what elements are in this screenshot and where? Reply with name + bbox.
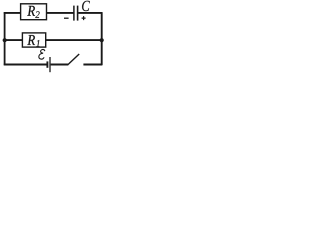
- battery short plate (negative): [46, 61, 48, 67]
- label C: [82, 1, 90, 11]
- plus polarity mark: [82, 16, 86, 20]
- node: left junction: [3, 38, 7, 42]
- resistor R1: [22, 33, 45, 47]
- wire: top branch, R2 to capacitor: [47, 12, 74, 14]
- wire: middle branch, R1 to right rail: [46, 39, 102, 41]
- capacitor C left plate: [73, 6, 75, 21]
- node: right junction: [100, 38, 104, 42]
- resistor R2: [21, 4, 47, 20]
- label EMF script E: [38, 49, 45, 59]
- switch blade: [68, 54, 79, 65]
- wire: middle branch, left of R1: [4, 39, 23, 41]
- wire: top branch, left of R2: [4, 12, 21, 14]
- battery long plate (positive): [49, 57, 51, 72]
- minus polarity mark: [64, 17, 69, 19]
- label R1: [27, 35, 39, 47]
- wire: top branch, capacitor to right rail: [78, 12, 102, 14]
- wire: right rail: [101, 12, 103, 65]
- capacitor C right plate: [77, 6, 79, 21]
- wire: left rail: [4, 12, 6, 65]
- wire: bottom branch, left rail to battery: [4, 64, 47, 66]
- wire: bottom branch, switch contact to right rail: [83, 64, 102, 66]
- wire: bottom branch, battery to switch: [51, 64, 69, 66]
- label R2: [27, 6, 39, 18]
